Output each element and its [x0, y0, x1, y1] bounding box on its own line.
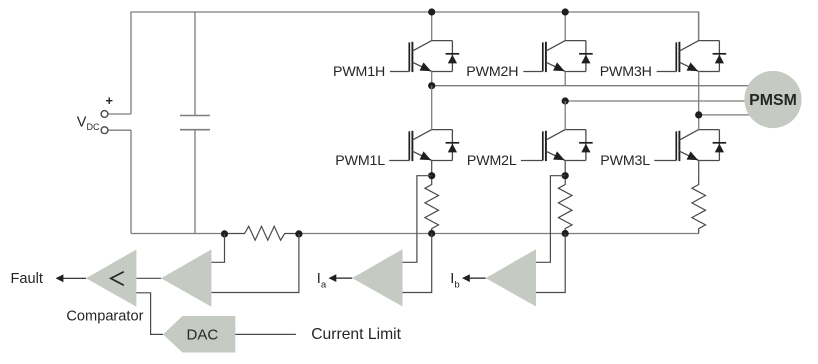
resistor R_sense (DC bus shunt) — [225, 226, 299, 240]
wire shunt R2 top tap to amp U4 — [536, 176, 565, 263]
svg-text:PWM2H: PWM2H — [466, 64, 518, 80]
wire gate PWM1H — [390, 71, 409, 73]
wire gate PWM2L — [521, 160, 543, 162]
wire Q6 emitter to shunt — [698, 161, 700, 176]
motor PMSM — [744, 71, 801, 128]
junction top rail phase 2 — [562, 8, 569, 15]
terminal VDC- — [108, 129, 131, 131]
op-amp U2 (overcurrent sense) — [161, 249, 211, 306]
diode D1 (antiparallel) — [446, 41, 460, 72]
wire comparator ref input from DAC — [136, 293, 163, 335]
op-amp U3 (phase 1 current sense) — [352, 249, 402, 306]
junction top rail phase 1 — [428, 8, 435, 15]
resistor R1 (phase 1 shunt) — [425, 176, 439, 234]
wire Ib output — [470, 277, 486, 279]
DAC U5 — [163, 316, 235, 353]
svg-text:Current Limit: Current Limit — [311, 326, 401, 343]
capacitor C1 (DC link) — [180, 12, 210, 234]
resistor R3 (phase 3 shunt) — [692, 176, 706, 234]
wire gate PWM1L — [389, 160, 409, 162]
wire phase1 emitter to node A — [431, 72, 433, 86]
wire Fault output — [63, 277, 86, 279]
svg-text:DAC: DAC — [187, 327, 219, 344]
wire Q5 emitter to shunt — [564, 161, 566, 176]
wire bottom DC- rail (left of shunt) — [131, 233, 225, 235]
junction R_sense left — [221, 230, 228, 237]
svg-text:PWM1H: PWM1H — [333, 64, 385, 80]
junction R_sense right — [295, 230, 302, 237]
diode D3 (antiparallel) — [713, 41, 727, 72]
wire DAC input Current Limit — [235, 333, 296, 335]
wire phase A output to PMSM — [432, 85, 750, 87]
wire phase B output to PMSM — [565, 100, 750, 102]
wire phase2 emitter stub — [564, 72, 566, 86]
diode D6 (antiparallel) — [713, 130, 727, 161]
svg-text:PMSM: PMSM — [749, 92, 797, 109]
svg-text:PWM3L: PWM3L — [600, 153, 650, 169]
svg-text:VDC: VDC — [77, 114, 100, 132]
wire Q4 emitter to shunt — [431, 161, 433, 176]
transistor Q3 (PWM3H) — [676, 41, 719, 73]
transistor Q6 (PWM3L) — [676, 130, 719, 162]
wire phase3 emitter to node C — [698, 72, 700, 130]
wire collector stub phase 2 high — [564, 12, 566, 41]
transistor Q1 (PWM1H) — [409, 41, 452, 73]
diode D2 (antiparallel) — [579, 41, 593, 72]
wire DC+ top rail — [131, 12, 699, 114]
diode D5 (antiparallel) — [579, 130, 593, 161]
wire gate PWM2H — [523, 71, 543, 73]
transistor Q5 (PWM2L) — [543, 130, 586, 162]
wire bottom DC- rail (right of shunt) — [299, 233, 699, 235]
comparator U1 — [86, 249, 136, 306]
diode D4 (antiparallel) — [446, 130, 460, 161]
wire gate PWM3L — [654, 160, 676, 162]
node B junction — [562, 97, 569, 104]
svg-text:Ia: Ia — [317, 271, 327, 291]
wire shunt R2 bottom tap to amp U4 — [536, 234, 565, 293]
svg-text:PWM1L: PWM1L — [335, 153, 385, 169]
wire collector stub phase 1 high — [431, 12, 433, 41]
junction shunt R1 top — [428, 172, 435, 179]
wire DC- left vertical — [130, 130, 132, 233]
svg-text:Ib: Ib — [450, 271, 459, 291]
wire shunt R1 top tap to amp U3 — [403, 176, 432, 263]
svg-text:+: + — [106, 93, 113, 108]
resistor R2 (phase 2 shunt) — [558, 176, 572, 234]
svg-text:Fault: Fault — [11, 271, 43, 287]
wire collector stub phase 3 high — [698, 12, 700, 41]
transistor Q4 (PWM1L) — [409, 130, 452, 162]
wire shunt R1 bottom tap to amp U3 — [403, 234, 432, 293]
junction shunt R2 bottom — [562, 230, 569, 237]
junction shunt R2 top — [562, 172, 569, 179]
junction shunt R1 bottom — [428, 230, 435, 237]
transistor Q2 (PWM2H) — [543, 41, 586, 73]
wire U2 output to comparator — [136, 277, 161, 279]
node A junction — [428, 82, 435, 89]
wire Ia output — [336, 277, 352, 279]
wire R_sense right tap to amp U2 — [211, 234, 299, 293]
svg-text:Comparator: Comparator — [66, 309, 143, 325]
wire R_sense left tap to amp U2 — [211, 234, 224, 262]
terminal VDC+ — [108, 113, 131, 115]
node C junction — [695, 111, 702, 118]
svg-text:PWM3H: PWM3H — [600, 64, 652, 80]
svg-text:PWM2L: PWM2L — [467, 153, 517, 169]
wire node B to Q5 collector — [564, 101, 566, 130]
wire gate PWM3H — [657, 71, 677, 73]
op-amp U4 (phase 2 current sense) — [486, 249, 536, 306]
wire node A to Q4 collector — [431, 86, 433, 130]
wire phase C output to PMSM — [699, 114, 750, 116]
